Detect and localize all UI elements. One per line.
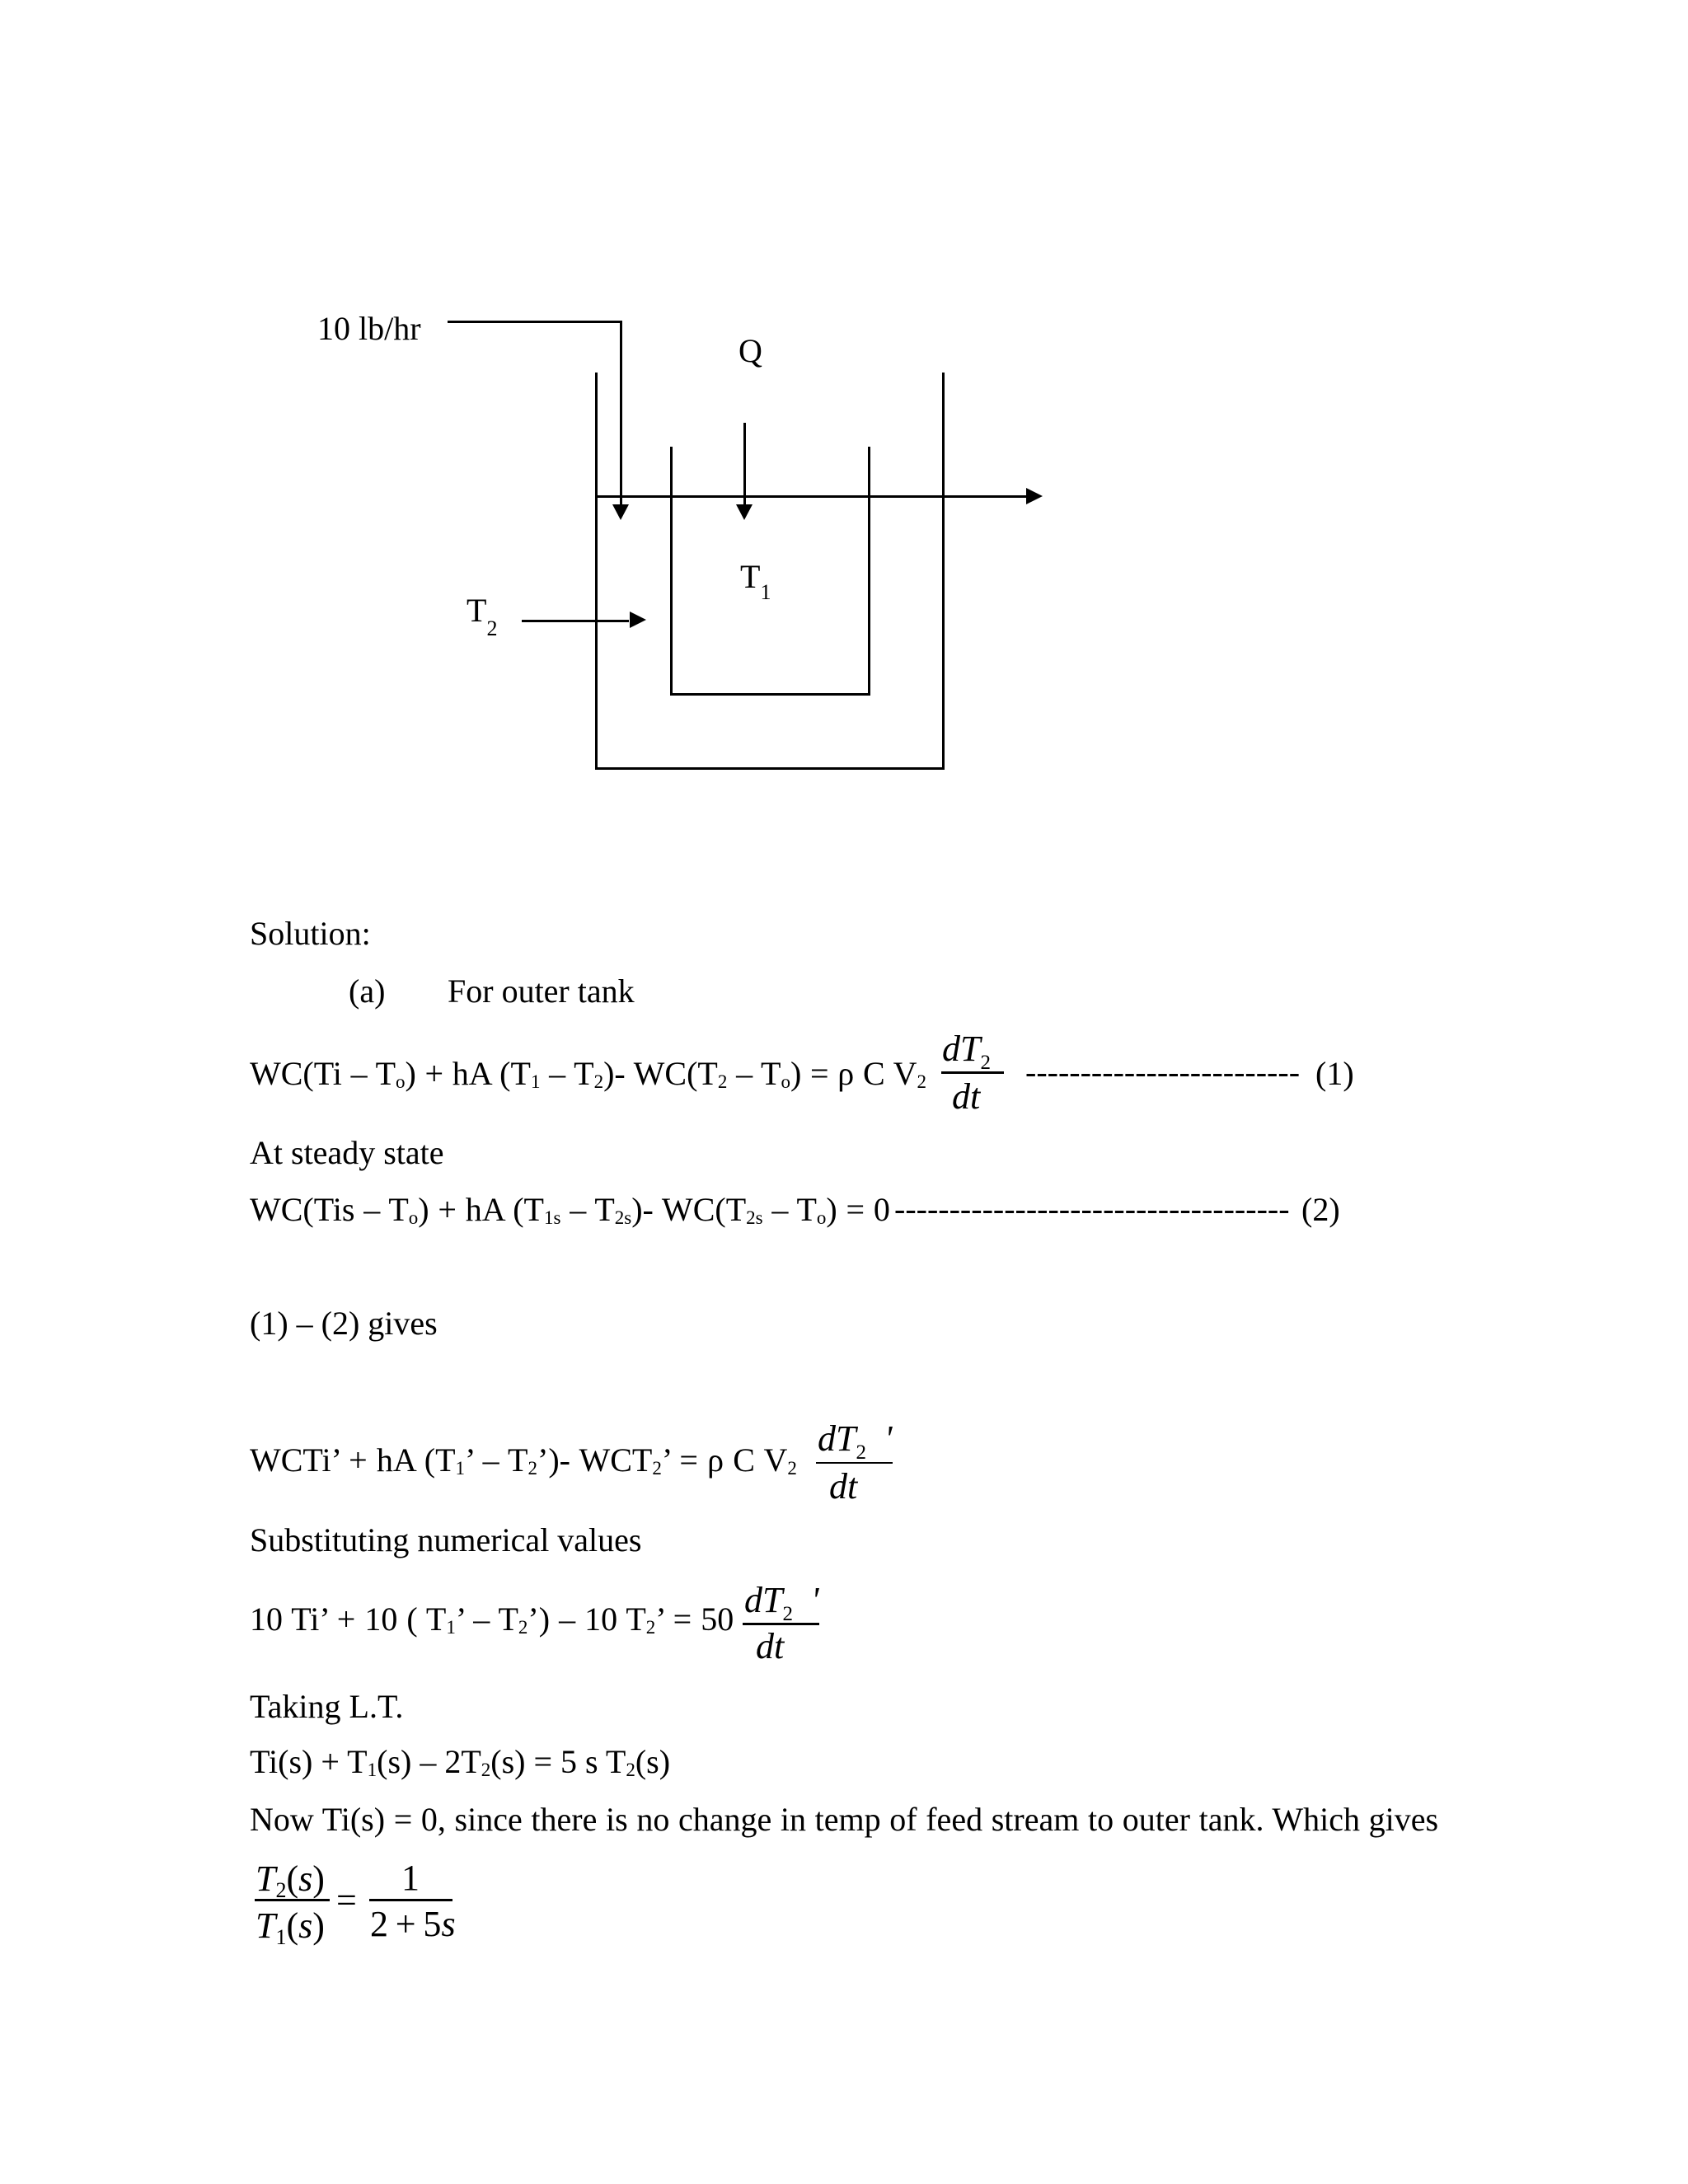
arrowhead feed into outer tank <box>612 504 629 520</box>
label T2 (outer tank temperature) <box>467 594 497 640</box>
final equation left fraction denominator T1(s) <box>256 1908 325 1948</box>
final equation right fraction numerator 1 <box>401 1860 420 1896</box>
wire Q arrow vertical <box>743 423 746 504</box>
equation 3 main text <box>250 1444 797 1478</box>
label 10 lb/hr (feed stream) <box>317 312 421 345</box>
inner tank bottom wall <box>670 693 871 696</box>
equation 3 fraction numerator dT2 prime <box>818 1421 892 1463</box>
equation 2 dashes <box>894 1193 1290 1226</box>
text (1) - (2) gives <box>250 1307 438 1340</box>
final equation left fraction numerator T2(s) <box>256 1861 325 1901</box>
equation 1 main text <box>250 1057 926 1091</box>
label Q (heat input) <box>738 335 762 368</box>
label T1 (inner tank temperature) <box>740 560 771 603</box>
final equation equals sign <box>336 1882 357 1919</box>
equation 2 number (2) <box>1301 1193 1340 1226</box>
equation 2 main text <box>250 1193 890 1227</box>
equation 5 Laplace line <box>250 1746 670 1779</box>
equation 1 fraction bar <box>941 1071 1004 1074</box>
outer tank bottom wall <box>595 767 945 770</box>
wire T2 arrow shaft <box>522 620 629 622</box>
text Solution: <box>250 917 371 950</box>
text (a) <box>349 975 385 1008</box>
outer tank left wall <box>595 373 598 770</box>
equation 4 fraction bar <box>743 1623 819 1625</box>
final equation right fraction bar <box>369 1899 452 1901</box>
outer tank right wall <box>942 373 945 770</box>
text Now Ti(s) = 0 ... Which gives <box>250 1803 1438 1836</box>
text Substituting numerical values <box>250 1524 642 1557</box>
arrowhead Q into inner tank <box>736 504 753 520</box>
wire feed pipe vertical segment <box>620 321 622 504</box>
final equation right fraction denominator 2+5s <box>370 1906 456 1943</box>
inner tank right wall <box>868 447 870 696</box>
inner tank left wall <box>670 447 673 696</box>
equation 4 main text <box>250 1603 734 1637</box>
equation 4 fraction denominator dt <box>756 1629 784 1665</box>
equation 1 dashes <box>1025 1056 1300 1089</box>
arrowhead outflow to right <box>1026 488 1043 504</box>
equation 1 number (1) <box>1315 1057 1354 1090</box>
equation 4 fraction numerator dT2 prime <box>744 1582 818 1624</box>
equation 3 fraction denominator dt <box>829 1469 857 1505</box>
equation 1 fraction denominator dt <box>952 1079 980 1115</box>
text For outer tank <box>448 975 635 1008</box>
equation 1 fraction numerator dT2 <box>942 1031 991 1073</box>
text Taking L.T. <box>250 1690 403 1723</box>
text At steady state <box>250 1137 444 1169</box>
final equation left fraction bar <box>255 1899 330 1901</box>
wire outflow line across tanks <box>595 495 1026 498</box>
wire feed pipe horizontal segment <box>448 321 621 323</box>
equation 3 fraction bar <box>816 1462 893 1465</box>
arrowhead T2 into outer tank <box>630 612 646 628</box>
